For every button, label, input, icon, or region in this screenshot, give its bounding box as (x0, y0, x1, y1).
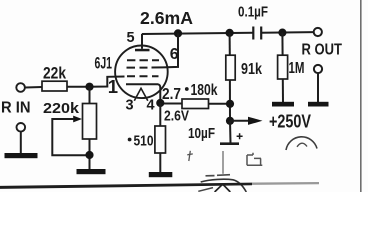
svg-text:91k: 91k (241, 61, 262, 78)
wire: 180k to B+ line (209, 103, 231, 105)
arrow +250V supply (248, 117, 263, 125)
resistor R 22k (42, 81, 67, 91)
label + polarity of 10uF (237, 133, 243, 139)
svg-text:R OUT: R OUT (302, 42, 343, 59)
wire: junction to 1M (281, 33, 283, 56)
wire: 510 to ground (159, 153, 161, 173)
terminal R IN ground circle (17, 123, 26, 132)
svg-text:2.7: 2.7 (162, 86, 181, 103)
svg-text:510: 510 (134, 132, 154, 149)
wire: cathode node to 180k (160, 103, 182, 105)
node cathode junction (156, 99, 164, 107)
decoration: cropped socket arc bottom right (286, 137, 317, 150)
svg-text:22k: 22k (43, 65, 67, 83)
label *510 (128, 132, 154, 149)
svg-text:180k: 180k (191, 82, 218, 99)
wire: cathode node down to 510 (159, 103, 161, 126)
resistor R 1M (278, 55, 288, 79)
terminal R OUT ground circle (314, 65, 322, 73)
grid g3 of 6J1 (127, 59, 159, 61)
wire: R OUT ground terminal down (317, 73, 319, 102)
wire: input terminal to 22k (25, 86, 42, 89)
ground (510) (149, 172, 173, 177)
capacitor C 0.1uF plates (253, 27, 261, 40)
wire: junction down to potentiometer (89, 87, 91, 104)
node 1M top junction (278, 28, 286, 36)
ground (1M) (272, 102, 294, 107)
ground (R OUT) (308, 102, 329, 107)
wire: cap to output rail (261, 31, 313, 34)
wire: faint dashes of cropped figure (206, 175, 231, 176)
decoration: cropped figure slash (198, 188, 213, 192)
decoration: cropped figure small t mark (187, 151, 193, 161)
resistor R 180k (182, 99, 209, 109)
grid g1 of 6J1 (127, 75, 159, 77)
svg-text:6: 6 (170, 46, 179, 63)
node pot bottom junction (85, 151, 93, 159)
node B+ arrow junction (226, 117, 234, 125)
wire: junction to 91k (229, 33, 231, 55)
decoration: socket arc notch (297, 143, 307, 147)
svg-text:4: 4 (147, 98, 155, 114)
svg-text:1M: 1M (289, 60, 305, 77)
capacitor C 10uF top plate (220, 142, 239, 145)
wire: potentiometer bottom to ground (89, 139, 91, 170)
svg-text:6J1: 6J1 (95, 53, 113, 72)
wiper arrow of 220k (52, 116, 89, 156)
ground (R IN) (5, 153, 38, 158)
decoration: bottom border light continuation (252, 182, 319, 185)
svg-text:3: 3 (126, 98, 134, 114)
plate of 6J1 (135, 34, 150, 52)
potentiometer R 220k body (83, 104, 97, 140)
wire: 91k bottom to B+ node (229, 80, 231, 121)
svg-text:R IN: R IN (1, 100, 31, 117)
grid g2 of 6J1 (screen) (127, 66, 164, 68)
svg-text:2.6V: 2.6V (164, 108, 189, 125)
wire: 22k to grid node (67, 77, 125, 87)
wire: faint lead of cropped figure below (222, 151, 224, 174)
svg-text:2.6mA: 2.6mA (140, 8, 193, 28)
wire: screen (pin 6) tie to plate rail (163, 33, 178, 67)
svg-text:220k: 220k (43, 100, 80, 117)
wire: 1M bottom to ground (282, 79, 284, 102)
terminal R IN signal circle (16, 83, 25, 92)
decoration: right border line (360, 0, 362, 192)
node screen tie junction (174, 29, 182, 37)
svg-text:5: 5 (127, 30, 135, 46)
wire: plate line (top rail left of coupling cap) (142, 33, 253, 34)
decoration: cropped bracket symbol (247, 153, 262, 166)
label *180k (185, 82, 218, 99)
node 180k B+ junction (226, 100, 234, 108)
decoration: cropped figure curve (201, 179, 247, 192)
node grid junction (85, 83, 93, 91)
heater of 6J1 (134, 88, 148, 101)
resistor R 510 (155, 126, 166, 153)
cathode of 6J1 (126, 84, 160, 103)
tube U 6J1 envelope (115, 46, 168, 99)
ground (220k) (77, 169, 106, 174)
node 91k top junction (226, 29, 234, 37)
terminal R OUT signal circle (314, 28, 322, 36)
resistor R 91k (226, 55, 235, 80)
svg-text:10µF: 10µF (188, 125, 215, 142)
svg-text:0.1µF: 0.1µF (238, 3, 268, 20)
wire: B+ node down to 10uF (229, 121, 232, 143)
wire: B+ node to arrow (230, 120, 249, 122)
wire: R IN ground terminal down (20, 132, 22, 154)
decoration: cropped figure triangle (215, 184, 231, 192)
decoration: bottom border dark (0, 183, 252, 189)
svg-text:+250V: +250V (269, 112, 311, 132)
